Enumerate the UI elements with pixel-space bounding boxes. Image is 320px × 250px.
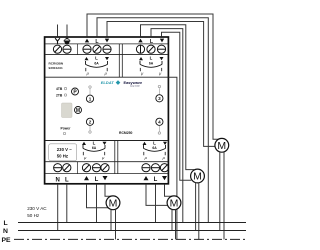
programming button (grey square) — [62, 103, 73, 118]
wire channel A down -> motor M1 — [107, 22, 215, 147]
L bus line — [18, 222, 246, 224]
svg-text:4TB: 4TB — [56, 87, 63, 91]
svg-text:easy install: easy install — [130, 85, 140, 88]
bottom row double divider between channel C and D — [115, 141, 118, 174]
svg-text:6A: 6A — [152, 146, 157, 150]
body / bottom relay row divider — [45, 140, 167, 142]
screw terminal D-L — [151, 164, 159, 172]
motor M4 — [106, 196, 120, 210]
supply note 230 V AC 50 Hz — [27, 206, 47, 218]
wire channel A L -> L bus — [97, 18, 208, 223]
channel indicator 1 — [86, 86, 93, 102]
motor M3 — [167, 196, 181, 210]
svg-text:ELDAT: ELDAT — [101, 80, 115, 85]
svg-text:L: L — [4, 220, 8, 227]
wire motor M3 PE — [175, 209, 177, 239]
screw terminal C-down — [101, 164, 109, 172]
bottom relay / screw row divider — [45, 161, 167, 163]
svg-text:N: N — [56, 178, 60, 184]
wire channel D down -> motor M3 — [165, 184, 173, 196]
bottom screw / label row divider — [45, 173, 167, 175]
svg-text:M: M — [76, 108, 80, 114]
svg-text:1: 1 — [89, 97, 92, 102]
relay contact symbol K4 (channel D, 6A) — [143, 140, 168, 159]
antenna symbol label — [55, 38, 60, 43]
antenna wire 1 — [57, 25, 59, 37]
relay row / logo row divider — [45, 76, 167, 78]
button P — [72, 88, 79, 95]
channel A terminal labels (up, L, down) — [85, 39, 109, 45]
button M — [75, 107, 82, 114]
relay contact symbol K3 (channel C, 6A) — [82, 140, 107, 159]
earth/shield symbol label — [64, 37, 71, 44]
svg-text:L: L — [150, 56, 153, 61]
svg-text:3: 3 — [158, 96, 161, 101]
svg-text:RCM250: RCM250 — [119, 131, 132, 135]
wire channel C up -> motor M4 — [87, 184, 109, 208]
supply rating box 230V 50Hz — [49, 144, 77, 161]
wire motor M2 PE — [198, 183, 200, 240]
screw terminal B-up — [136, 45, 144, 53]
channel indicator 3 — [156, 85, 163, 102]
wire channel B down -> motor M2 — [162, 32, 192, 180]
screw terminal C-up — [82, 164, 90, 172]
svg-text:230 V ~: 230 V ~ — [57, 147, 72, 152]
channel indicator 4 — [156, 118, 163, 134]
wire motor M4 PE — [115, 209, 117, 239]
wire channel C L -> L bus — [96, 184, 98, 222]
antenna wire 2 — [66, 25, 68, 37]
device type text RCR03BN 93004A01 — [49, 62, 64, 70]
svg-text:Easywave: Easywave — [124, 80, 143, 85]
wire motor M4 N — [110, 209, 112, 230]
svg-text:2: 2 — [89, 120, 92, 125]
wire channel D L -> L bus — [155, 184, 157, 222]
wire motor M2 N — [195, 183, 197, 231]
svg-text:50 Hz: 50 Hz — [27, 213, 40, 218]
top screw row bottom line — [45, 54, 167, 56]
screw terminal A-L — [93, 45, 101, 53]
svg-text:PE: PE — [2, 237, 12, 244]
svg-text:M: M — [193, 171, 202, 183]
relay contact symbol K2 (channel B, 6A) — [139, 56, 164, 76]
channel B terminal labels (up, L, down) — [138, 39, 164, 45]
screw terminal A-up — [83, 45, 91, 53]
screw terminal D-up — [142, 164, 150, 172]
top terminal label/screw separator line — [45, 43, 167, 45]
relay contact symbol K1 (channel A, 6A) — [85, 56, 110, 76]
svg-text:L: L — [95, 56, 98, 61]
svg-text:Power: Power — [61, 127, 72, 131]
svg-text:M: M — [109, 198, 118, 210]
LED 2TB — [64, 94, 66, 96]
N bus line — [18, 230, 246, 232]
svg-text:M: M — [217, 140, 226, 152]
wire motor M3 N — [171, 209, 173, 230]
screw terminal B-L — [147, 45, 155, 53]
Easywave logo — [124, 80, 143, 88]
svg-text:L: L — [65, 178, 69, 184]
svg-text:93004A01: 93004A01 — [49, 66, 64, 70]
wire channel A up -> motor M1 — [87, 14, 219, 139]
external antenna wire from device side — [169, 77, 177, 239]
wire N input -> N bus — [57, 184, 59, 230]
svg-text:2TB: 2TB — [56, 93, 63, 97]
PE bus line (dash-dot) — [14, 238, 246, 240]
svg-text:L: L — [93, 140, 96, 145]
top row single divider after antenna terminals — [77, 44, 79, 55]
motor M1 — [215, 138, 229, 152]
svg-text:6A: 6A — [92, 146, 97, 150]
svg-text:N: N — [3, 228, 8, 235]
device enclosure U1 — [45, 37, 169, 184]
wire L input -> L bus — [66, 184, 68, 222]
screw terminal A-down — [103, 45, 111, 53]
channel C terminal labels (up, L, down) — [84, 176, 108, 183]
screw terminal N — [54, 164, 62, 172]
svg-text:L: L — [153, 140, 156, 145]
top row double divider between channel A and B — [119, 44, 122, 77]
screw terminal L-in — [63, 164, 71, 172]
screw terminal antenna 2 — [63, 45, 71, 53]
wire channel B L -> L bus — [151, 29, 183, 223]
Power LED — [63, 132, 65, 134]
screw terminal antenna 1 — [53, 45, 61, 53]
wire motor M1 PE — [223, 152, 225, 240]
wire channel D up -> motor M3 — [146, 184, 168, 205]
LED 4TB — [64, 87, 66, 89]
wire motor M1 N — [219, 152, 221, 231]
svg-text:50 Hz: 50 Hz — [57, 153, 68, 158]
screw terminal B-down — [157, 45, 165, 53]
wire channel C down -> motor M4 — [105, 184, 111, 196]
screw terminal D-down — [160, 164, 168, 172]
motor M2 — [191, 169, 205, 183]
svg-text:6A: 6A — [149, 61, 154, 65]
svg-text:230 V AC: 230 V AC — [27, 206, 47, 211]
ELDAT logo diamond — [116, 80, 121, 85]
screw terminal C-L — [92, 164, 100, 172]
channel D terminal labels (up, L, down) — [144, 176, 168, 183]
svg-text:6A: 6A — [94, 61, 99, 65]
svg-text:M: M — [170, 198, 179, 210]
svg-text:L: L — [95, 177, 99, 183]
bottom row single divider after N L terminals — [77, 162, 79, 174]
wire channel B up -> motor M2 — [141, 25, 195, 170]
svg-text:4: 4 — [158, 120, 161, 125]
channel indicator 2 — [86, 118, 93, 133]
svg-text:L: L — [154, 177, 158, 183]
